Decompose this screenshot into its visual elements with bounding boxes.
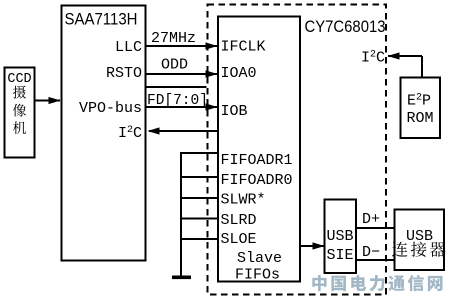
svg-text:RSTO: RSTO xyxy=(106,65,142,82)
svg-text:CCD: CCD xyxy=(7,72,31,87)
svg-text:USB: USB xyxy=(406,228,433,245)
svg-text:IOB: IOB xyxy=(221,103,248,120)
pin: FIFOADR1 xyxy=(221,152,293,169)
svg-text:SIE: SIE xyxy=(326,247,353,264)
wire: RSTO to IOA0 with ODD label xyxy=(146,57,218,78)
block: E2PROM box xyxy=(401,78,441,139)
pin: I2C (SAA7113H side) xyxy=(118,125,142,142)
wire: FIFOADR0 stub to ground bus xyxy=(181,176,218,178)
svg-text:FIFOADR0: FIFOADR0 xyxy=(221,172,293,189)
pin: RSTO xyxy=(106,65,142,82)
svg-text:SLOE: SLOE xyxy=(221,231,257,248)
pin: VPO-bus xyxy=(79,100,142,117)
wire: SLOE stub to ground bus xyxy=(181,238,218,240)
wire: CCD to SAA7113H video input arrow xyxy=(35,97,61,104)
block: USB SIE box xyxy=(325,200,357,274)
ground symbol xyxy=(172,276,191,280)
watermark: zhongguo dianli tongxin wang xyxy=(312,275,442,291)
label: I2C (EEPROM bus) xyxy=(361,50,385,67)
block: USB connector box xyxy=(395,210,445,271)
svg-text:VPO-bus: VPO-bus xyxy=(79,100,142,117)
svg-text:D−: D− xyxy=(362,244,380,261)
block: CY7C68013 dashed boundary box xyxy=(208,5,387,295)
svg-text:Slave: Slave xyxy=(237,250,282,267)
block: SAA7113H video decoder box xyxy=(62,6,146,261)
svg-text:LLC: LLC xyxy=(115,39,142,56)
svg-text:SLWR*: SLWR* xyxy=(221,192,266,209)
block: CY7C68013 core (Slave FIFOs) box xyxy=(218,17,300,282)
label: Slave FIFOs xyxy=(235,250,282,284)
pin: IOB xyxy=(221,103,248,120)
wire: FD bus label slot top line xyxy=(146,86,207,88)
wire: I2C bus arrow from CY7C68013 to SAA7113H xyxy=(148,127,219,134)
svg-text:SLRD: SLRD xyxy=(221,212,257,229)
wire: VPO-bus to IOB with FD[7:0] label xyxy=(146,93,218,111)
pin: SLOE xyxy=(221,231,257,248)
label: USB SIE xyxy=(326,228,353,264)
svg-text:SAA7113H: SAA7113H xyxy=(65,10,138,29)
svg-text:FD[7:0]: FD[7:0] xyxy=(147,93,208,109)
block: CCD camera box xyxy=(5,68,35,158)
wire: SLRD stub to ground bus xyxy=(181,218,218,220)
label: CCD camera text xyxy=(7,72,31,134)
label: SAA7113H xyxy=(65,10,138,29)
svg-text:27MHz: 27MHz xyxy=(151,30,196,47)
wire: vertical ground bus xyxy=(180,152,182,276)
pin: IOA0 xyxy=(221,65,257,82)
svg-text:FIFOs: FIFOs xyxy=(235,267,280,284)
pin: FIFOADR0 xyxy=(221,172,293,189)
label: E2P ROM xyxy=(406,93,433,128)
pin: LLC xyxy=(115,39,142,56)
svg-text:CY7C68013: CY7C68013 xyxy=(305,17,386,36)
wire: SLWR* stub to ground bus xyxy=(181,197,218,199)
wire: LLC to IFCLK with 27MHz label xyxy=(146,30,218,50)
label: CY7C68013 xyxy=(305,17,386,36)
svg-text:IFCLK: IFCLK xyxy=(221,39,266,56)
pin: IFCLK xyxy=(221,39,266,56)
wire: D+ line with label xyxy=(356,211,394,228)
pin: SLWR* xyxy=(221,192,266,209)
label: USB connector text xyxy=(392,228,446,257)
wire: EEPROM I2C arrow xyxy=(388,52,423,77)
svg-text:FIFOADR1: FIFOADR1 xyxy=(221,152,293,169)
wire: Slave FIFOs to USB SIE arrow xyxy=(300,242,325,249)
svg-text:IOA0: IOA0 xyxy=(221,65,257,82)
wire: FIFOADR1 stub to ground bus xyxy=(181,152,218,154)
svg-text:ODD: ODD xyxy=(161,57,188,74)
svg-text:ROM: ROM xyxy=(406,110,433,127)
svg-text:D+: D+ xyxy=(362,211,380,228)
svg-text:USB: USB xyxy=(326,228,353,245)
pin: SLRD xyxy=(221,212,257,229)
wire: D- line with label xyxy=(356,244,394,261)
